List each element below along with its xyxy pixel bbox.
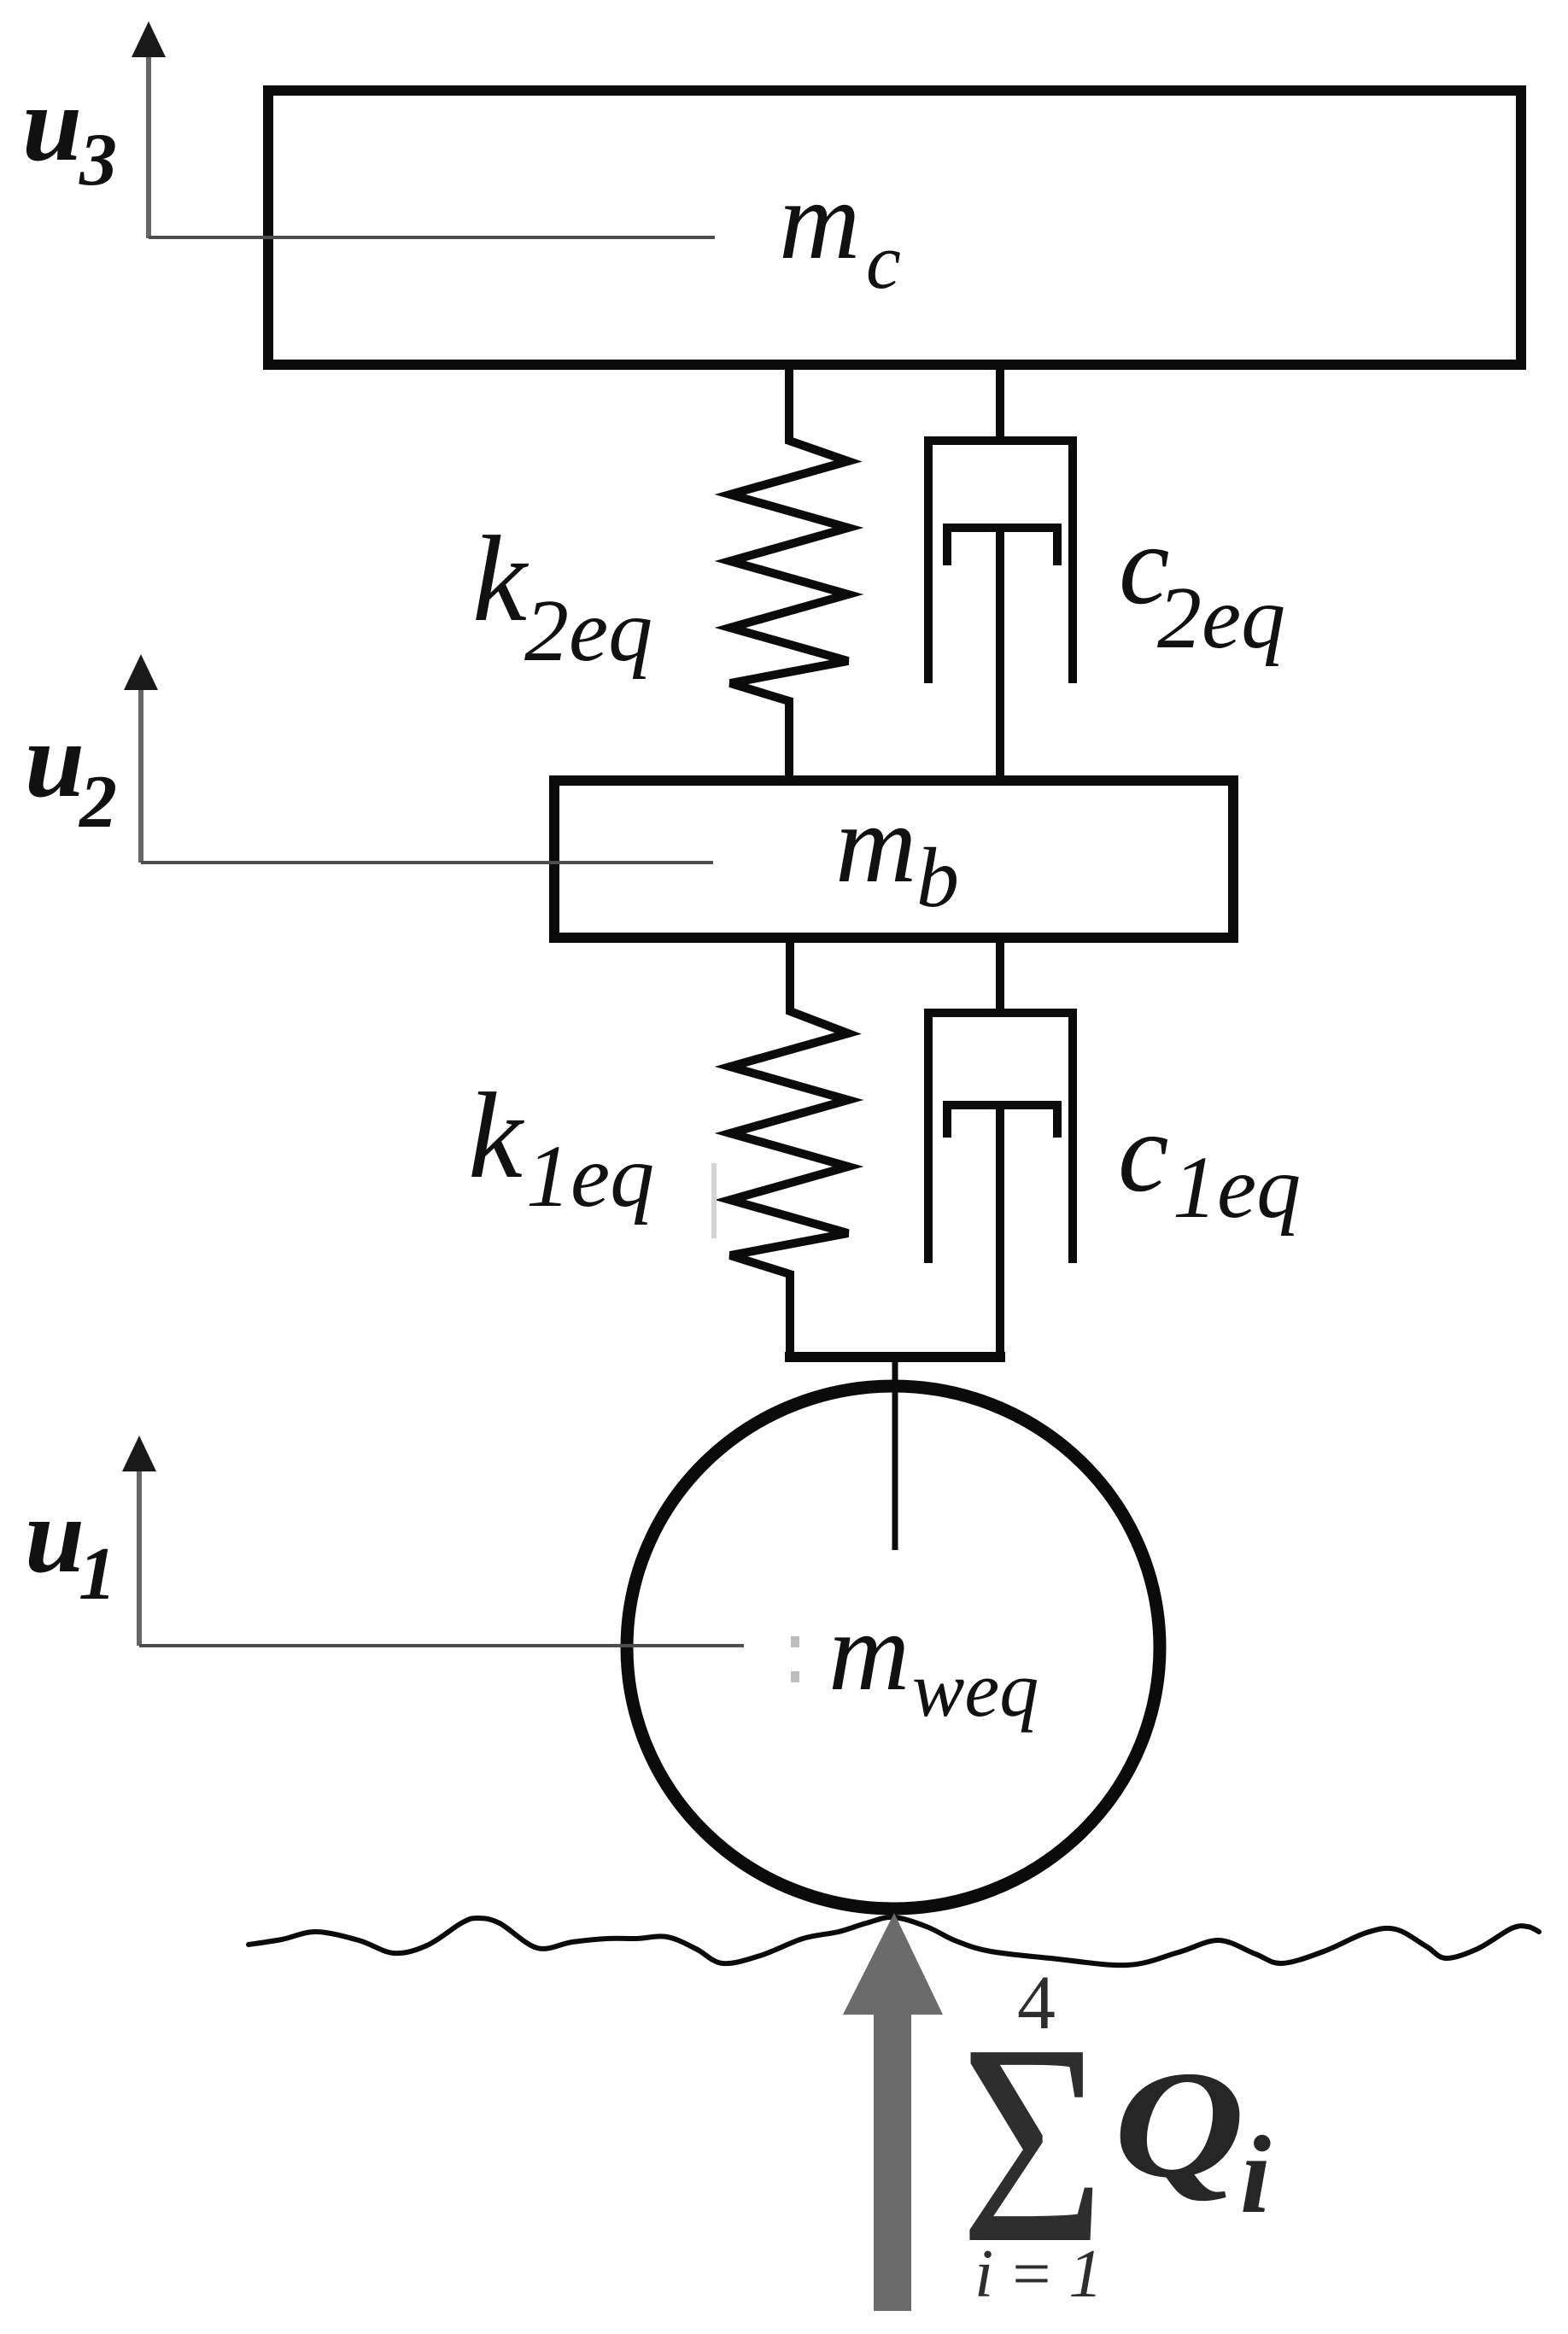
svg-text:b: b — [916, 830, 959, 925]
svg-text:2eq: 2eq — [524, 582, 652, 680]
svg-text:k: k — [468, 1068, 525, 1204]
cylinder cup — [928, 441, 1073, 683]
spring k2eq — [730, 365, 848, 781]
rod bottom — [996, 1105, 1004, 1357]
label mb — [835, 781, 959, 925]
piston head — [947, 528, 1057, 565]
svg-text:k: k — [472, 512, 529, 647]
rod bottom — [996, 528, 1004, 781]
svg-text:3: 3 — [79, 119, 117, 202]
svg-text:Q: Q — [1114, 2039, 1244, 2209]
axis u3 arrow — [132, 21, 166, 238]
label u2 — [25, 701, 117, 844]
svg-text:c: c — [866, 218, 901, 305]
mass mc (car body) — [268, 91, 1521, 365]
axis u1 arrow — [122, 1436, 156, 1646]
label u1 — [25, 1477, 116, 1616]
svg-text:u: u — [22, 65, 82, 184]
label c2eq — [1119, 501, 1285, 667]
damper c2eq — [928, 365, 1073, 781]
svg-text:1: 1 — [79, 1533, 116, 1616]
svg-text:weq: weq — [912, 1646, 1039, 1733]
svg-text:2eq: 2eq — [1157, 569, 1285, 667]
label mweq — [828, 1588, 1039, 1733]
force label: sum symbol — [960, 1986, 1105, 2302]
svg-text:m: m — [835, 781, 916, 906]
spring k1eq — [730, 938, 848, 1357]
wheel mass mweq — [627, 1386, 1160, 1909]
piston head — [947, 1105, 1057, 1138]
wire: drop link to wheel — [892, 1357, 898, 1550]
node u3 reference line — [149, 236, 715, 239]
rod top — [996, 365, 1004, 441]
artifact colon — [791, 1636, 799, 1682]
svg-text:c: c — [1118, 1089, 1168, 1215]
node u1 reference line — [139, 1644, 744, 1647]
damper c1eq — [928, 938, 1073, 1357]
svg-text:m: m — [828, 1588, 910, 1714]
svg-text:4: 4 — [1017, 1961, 1056, 2045]
node u2 reference line — [141, 861, 713, 864]
svg-text:i: i — [1240, 2114, 1271, 2237]
label mc — [779, 157, 901, 305]
label u3 — [22, 65, 117, 202]
svg-text:1eq: 1eq — [1173, 1138, 1301, 1237]
svg-text:u: u — [25, 701, 85, 820]
wheel-rail force arrow (sum Qi) — [843, 1913, 943, 2311]
svg-text:m: m — [779, 157, 860, 283]
label k2eq — [472, 512, 652, 680]
artifact ghost stroke — [711, 1163, 717, 1238]
wire: bottom tie bar joining spring and damper — [785, 1352, 1005, 1362]
cylinder cup — [928, 1013, 1073, 1263]
label c1eq — [1118, 1089, 1301, 1237]
svg-text:2: 2 — [78, 761, 117, 844]
label k1eq — [468, 1068, 654, 1225]
svg-text:i=1: i=1 — [974, 2237, 1117, 2312]
axis u2 arrow — [124, 654, 158, 863]
svg-text:u: u — [25, 1477, 85, 1595]
ground profile (wavy rail surface) — [249, 1917, 1539, 1965]
rod top — [996, 938, 1004, 1013]
svg-text:1eq: 1eq — [526, 1127, 654, 1225]
mass mb (bogie) — [554, 781, 1233, 938]
